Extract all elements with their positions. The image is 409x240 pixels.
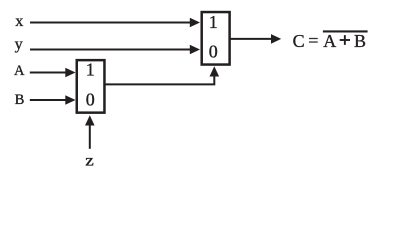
svg-text:0: 0 xyxy=(209,42,218,62)
svg-text:=: = xyxy=(308,30,318,50)
svg-text:B: B xyxy=(354,31,366,51)
svg-text:1: 1 xyxy=(209,12,218,32)
svg-text:1: 1 xyxy=(86,59,95,79)
svg-text:C: C xyxy=(293,31,305,51)
svg-text:A: A xyxy=(323,31,336,51)
svg-text:A: A xyxy=(14,63,25,79)
svg-text:0: 0 xyxy=(86,89,95,109)
svg-text:x: x xyxy=(15,12,23,30)
svg-text:y: y xyxy=(15,35,24,53)
svg-text:B: B xyxy=(15,92,25,108)
svg-text:z: z xyxy=(85,151,94,168)
